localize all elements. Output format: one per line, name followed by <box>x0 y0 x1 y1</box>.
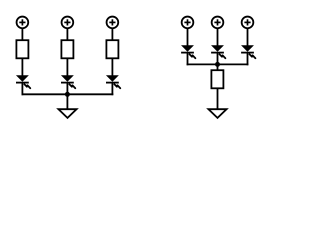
bus wire (left circuit common cathode rail) <box>22 93 114 95</box>
supply terminal +V 5 (right circuit) <box>212 17 224 29</box>
wire R4 to ground <box>217 88 219 109</box>
bus wire (right circuit common anode rail) <box>187 63 249 65</box>
supply terminal +V 4 (right circuit) <box>182 17 194 29</box>
supply terminal +V 1 (left circuit) <box>17 17 29 29</box>
resistor R3 <box>106 40 118 58</box>
wire D3 to bus <box>111 83 113 95</box>
LED D2 <box>61 75 75 88</box>
resistor R2 <box>61 40 73 58</box>
wire D1 to bus <box>21 83 23 95</box>
wire supply1 to R1 <box>21 29 23 42</box>
wire D6 to bus <box>247 53 249 65</box>
wire supply4 to D4 <box>187 29 189 47</box>
junction dot (left circuit) <box>65 92 70 97</box>
resistor R1 <box>16 40 28 58</box>
ground (left circuit) <box>58 109 76 118</box>
LED D1 <box>16 75 30 88</box>
wire supply2 to R2 <box>66 29 68 42</box>
LED D3 <box>106 75 120 88</box>
LED D5 <box>211 45 225 58</box>
LED D6 <box>241 45 255 58</box>
junction dot (right circuit) <box>215 62 220 67</box>
wire R1 to D1 <box>21 58 23 76</box>
wire junction to R4 <box>217 64 219 71</box>
wire supply5 to D5 <box>217 29 219 47</box>
wire junction to ground (left circuit) <box>66 94 68 109</box>
supply terminal +V 2 (left circuit) <box>62 17 74 29</box>
LED D4 <box>181 45 195 58</box>
resistor R4 (shared) <box>211 70 223 88</box>
wire D4 to bus <box>187 53 189 65</box>
wire supply6 to D6 <box>247 29 249 47</box>
ground (right circuit) <box>208 109 226 118</box>
supply terminal +V 6 (right circuit) <box>242 17 254 29</box>
wire R2 to D2 <box>66 58 68 76</box>
wire R3 to D3 <box>111 58 113 76</box>
supply terminal +V 3 (left circuit) <box>107 17 119 29</box>
wire D2 to bus <box>66 83 68 95</box>
wire D5 to bus <box>217 53 219 65</box>
wire supply3 to R3 <box>111 29 113 42</box>
